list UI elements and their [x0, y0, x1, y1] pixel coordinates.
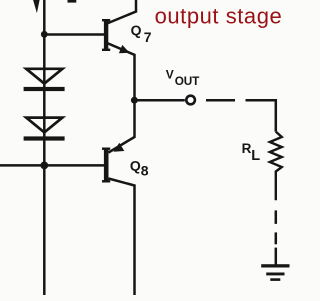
svg-text:R: R	[242, 141, 252, 156]
svg-text:output stage: output stage	[155, 4, 283, 29]
svg-text:Q: Q	[130, 157, 141, 173]
svg-text:V: V	[166, 67, 174, 81]
svg-text:7: 7	[144, 29, 152, 45]
svg-text:Q: Q	[131, 22, 142, 38]
svg-text:OUT: OUT	[175, 74, 200, 88]
svg-text:8: 8	[141, 163, 149, 179]
svg-text:L: L	[251, 148, 260, 164]
